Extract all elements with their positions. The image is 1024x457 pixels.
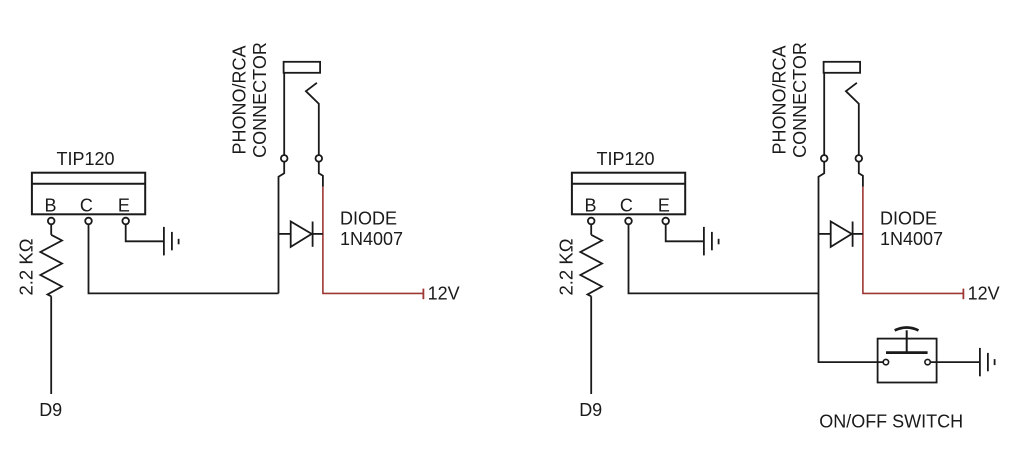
resistor R1 2.2k zigzag bbox=[40, 235, 62, 296]
pin terminal E bbox=[662, 218, 669, 225]
pin terminal E bbox=[122, 218, 129, 225]
wire resistor R2 to node D9 bbox=[590, 296, 592, 394]
svg-text:B: B bbox=[584, 196, 596, 216]
wire switch S1 to ground bbox=[931, 361, 980, 363]
transistor Q1 package inner line bbox=[32, 183, 145, 185]
switch S1 terminal 2 bbox=[925, 359, 930, 364]
ground symbol (emitter) bbox=[164, 227, 179, 256]
pin terminal B bbox=[48, 218, 55, 225]
svg-text:B: B bbox=[44, 196, 56, 216]
svg-text:DIODE: DIODE bbox=[340, 209, 397, 229]
svg-text:TIP120: TIP120 bbox=[596, 149, 654, 169]
wire connector pin 1 down to node A bbox=[279, 162, 285, 293]
transistor Q2 body (TIP120 package outline) bbox=[572, 173, 685, 215]
connector J1 tip spring contact bbox=[306, 83, 319, 155]
svg-text:1N4007: 1N4007 bbox=[880, 229, 943, 249]
connector J2 tip spring contact bbox=[846, 83, 859, 155]
wire B pin to resistor R1 bbox=[50, 225, 52, 235]
wire connector pin 2 stub bbox=[859, 162, 863, 187]
connector J2 sleeve lead bbox=[823, 73, 825, 155]
diode D1 triangle bbox=[291, 222, 312, 247]
svg-text:12V: 12V bbox=[968, 283, 1000, 303]
pin terminal C bbox=[625, 218, 632, 225]
wire connector pin 2 stub bbox=[319, 162, 323, 187]
switch S1 actuator stem bbox=[906, 330, 908, 352]
12V terminal tick bbox=[962, 289, 964, 300]
switch S1 terminal 1 bbox=[883, 359, 888, 364]
svg-text:2.2 KΩ: 2.2 KΩ bbox=[15, 238, 36, 295]
connector J1 pin 1 terminal bbox=[281, 155, 288, 162]
svg-text:D9: D9 bbox=[579, 400, 602, 420]
wire connector pin 1 down through node B to switch bbox=[819, 162, 884, 362]
connector J2 pin 2 terminal bbox=[856, 155, 863, 162]
svg-text:1N4007: 1N4007 bbox=[340, 229, 403, 249]
svg-text:C: C bbox=[620, 196, 633, 216]
svg-text:E: E bbox=[118, 196, 130, 216]
connector J1 body (sleeve bar) bbox=[284, 62, 321, 73]
wire C pin down and right to node A bbox=[89, 225, 279, 294]
svg-text:PHONO/RCA: PHONO/RCA bbox=[770, 45, 790, 154]
svg-text:C: C bbox=[80, 196, 93, 216]
ground symbol (switch) bbox=[980, 348, 995, 376]
diode D1 cathode wire bbox=[313, 233, 323, 235]
switch S1 body bbox=[878, 339, 937, 383]
12V terminal tick bbox=[422, 289, 424, 300]
resistor R2 2.2k zigzag bbox=[580, 235, 602, 296]
svg-text:CONNECTOR: CONNECTOR bbox=[790, 42, 810, 158]
switch S1 button cap bbox=[895, 328, 919, 331]
svg-text:2.2 KΩ: 2.2 KΩ bbox=[555, 238, 576, 295]
connector J2 pin 1 terminal bbox=[821, 155, 828, 162]
svg-text:CONNECTOR: CONNECTOR bbox=[250, 42, 270, 158]
diode D2 cathode bar bbox=[852, 222, 854, 247]
connector J1 pin 2 terminal bbox=[316, 155, 323, 162]
pin terminal B bbox=[588, 218, 595, 225]
diode D1 cathode bar bbox=[312, 222, 314, 247]
svg-text:12V: 12V bbox=[428, 283, 460, 303]
wire E pin to ground bbox=[666, 225, 703, 242]
wire 12V supply (red) bbox=[323, 187, 424, 294]
switch S1 contact bar bbox=[886, 351, 928, 354]
connector J2 label PHONO/RCA CONNECTOR bbox=[770, 42, 811, 158]
svg-text:PHONO/RCA: PHONO/RCA bbox=[230, 45, 250, 154]
connector J2 body (sleeve bar) bbox=[824, 62, 861, 73]
connector J1 sleeve lead bbox=[283, 73, 285, 155]
transistor Q1 body (TIP120 package outline) bbox=[32, 173, 145, 215]
connector J1 label PHONO/RCA CONNECTOR bbox=[230, 42, 271, 158]
svg-text:E: E bbox=[658, 196, 670, 216]
pin terminal C bbox=[85, 218, 92, 225]
transistor Q2 package inner line bbox=[572, 183, 685, 185]
svg-text:ON/OFF SWITCH: ON/OFF SWITCH bbox=[819, 412, 963, 432]
wire resistor R1 to node D9 bbox=[50, 296, 52, 394]
diode D1 anode wire bbox=[279, 233, 291, 235]
svg-text:DIODE: DIODE bbox=[880, 209, 937, 229]
wire B pin to resistor R2 bbox=[590, 225, 592, 235]
svg-text:D9: D9 bbox=[39, 400, 62, 420]
wire E pin to ground bbox=[126, 225, 163, 242]
diode D2 triangle bbox=[831, 222, 852, 247]
diode D2 anode wire bbox=[819, 233, 831, 235]
ground symbol (emitter) bbox=[704, 227, 719, 256]
wire 12V supply (red) bbox=[863, 187, 964, 294]
svg-text:TIP120: TIP120 bbox=[56, 149, 114, 169]
diode D2 cathode wire bbox=[853, 233, 863, 235]
wire C pin down and right to node B bbox=[629, 225, 819, 294]
